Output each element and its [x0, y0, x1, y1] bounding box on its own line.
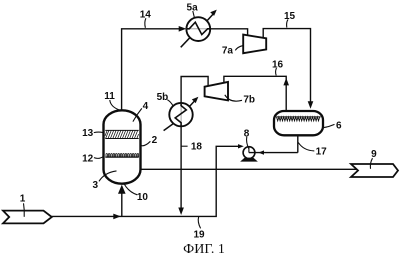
svg-text:15: 15	[284, 11, 296, 22]
svg-text:14: 14	[140, 10, 152, 21]
svg-text:8: 8	[244, 128, 250, 139]
svg-text:13: 13	[82, 128, 94, 139]
svg-text:7a: 7a	[222, 45, 234, 56]
svg-text:17: 17	[316, 146, 328, 157]
svg-text:2: 2	[152, 135, 158, 146]
svg-text:16: 16	[272, 59, 284, 70]
svg-text:4: 4	[143, 101, 149, 112]
svg-text:9: 9	[371, 149, 377, 160]
svg-text:ФИГ. 1: ФИГ. 1	[183, 242, 225, 256]
svg-text:12: 12	[82, 154, 94, 165]
svg-text:19: 19	[193, 230, 205, 241]
svg-text:18: 18	[191, 142, 203, 153]
svg-text:5a: 5a	[187, 2, 199, 13]
svg-text:1: 1	[20, 193, 26, 204]
svg-text:7b: 7b	[243, 95, 255, 106]
svg-text:5b: 5b	[157, 92, 169, 103]
svg-text:6: 6	[336, 120, 342, 131]
svg-text:10: 10	[137, 192, 149, 203]
svg-text:11: 11	[104, 91, 115, 102]
svg-text:3: 3	[93, 180, 99, 191]
